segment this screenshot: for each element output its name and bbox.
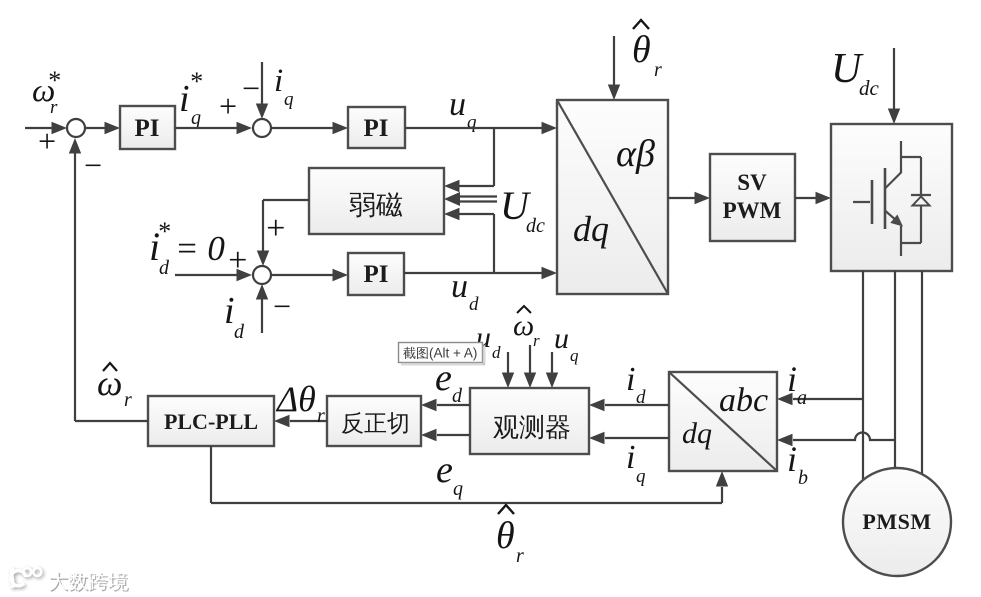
svg-text:θ: θ (632, 29, 651, 71)
watermark dashukuajing logo (11, 568, 129, 592)
wire junction3 to PI3 (271, 269, 348, 281)
summing junction 1 (speed error) (67, 119, 85, 137)
svg-text:dc: dc (859, 76, 880, 100)
block PLC-PLL (148, 396, 274, 446)
wire uq from PI2 to dq-to-alphabeta block (405, 122, 557, 134)
label id measured current (224, 290, 245, 343)
svg-text:d: d (492, 343, 501, 362)
label delta theta_r (275, 379, 325, 427)
wire theta_r estimate into transform top (608, 36, 620, 100)
label id*=0 reference (149, 217, 225, 279)
svg-text:r: r (50, 97, 58, 118)
wire ud from PI3 to dq-to-alphabeta block (404, 267, 557, 279)
svg-text:dq: dq (682, 417, 712, 450)
svg-text:q: q (453, 478, 463, 500)
block PI d-axis current regulator (348, 253, 404, 295)
wire speed reference input (25, 122, 67, 134)
svg-text:PMSM: PMSM (862, 509, 931, 534)
svg-text:q: q (284, 89, 294, 110)
svg-text:d: d (452, 385, 463, 407)
svg-text:i: i (626, 439, 635, 476)
svg-text:i: i (224, 290, 235, 332)
label omega_r estimate (feedback) (97, 363, 132, 411)
wire Udc double line into flux-weakening (444, 192, 497, 206)
svg-text:PWM: PWM (723, 198, 782, 223)
svg-text:a: a (797, 387, 807, 409)
transistor IGBT inside inverter (853, 141, 921, 256)
svg-text:b: b (798, 467, 808, 489)
svg-text:= 0: = 0 (175, 229, 225, 268)
svg-text:r: r (516, 545, 524, 567)
block PI q-axis current regulator (348, 107, 405, 148)
svg-text:θ: θ (496, 515, 515, 557)
wire flux-weakening output to d-current summing junction (257, 200, 309, 266)
svg-text:i: i (274, 63, 283, 99)
wire speed feedback from PLC-PLL to summing junction 1 (69, 138, 148, 421)
label minus sign at speed summing junction (82, 147, 104, 183)
svg-text:−: − (240, 70, 262, 106)
label id to observer (626, 361, 646, 408)
wire transform to SVPWM (668, 192, 710, 204)
svg-text:r: r (317, 405, 325, 427)
svg-text:q: q (467, 112, 477, 133)
svg-text:r: r (124, 389, 132, 411)
wire junction2 to PI2 (271, 122, 348, 134)
svg-text:d: d (636, 387, 646, 408)
block PI speed regulator (120, 106, 175, 149)
svg-text:dq: dq (573, 209, 609, 249)
wire ia current tap to abc-to-dq block (777, 393, 863, 405)
tooltip screenshot hint box (399, 343, 486, 366)
svg-text:+: + (217, 88, 239, 124)
svg-text:*: * (47, 66, 60, 95)
wire ib current tap with hop over phase-a wire (777, 433, 895, 447)
block dq to alphabeta transform (557, 100, 668, 294)
wire id from abc-dq to observer (589, 399, 669, 411)
svg-text:SV: SV (737, 170, 767, 195)
svg-text:i: i (179, 78, 190, 120)
svg-text:PI: PI (135, 115, 160, 142)
wire iq from abc-dq to observer (589, 432, 669, 444)
wire uq branch down into flux-weakening (444, 127, 494, 192)
svg-text:Δθ: Δθ (275, 379, 316, 419)
block inverter (831, 124, 952, 271)
summing junction 2 (q-axis current error) (253, 119, 271, 137)
label theta_r estimate (top) (632, 20, 662, 81)
svg-text:ω: ω (97, 363, 122, 403)
svg-text:ω: ω (513, 309, 534, 342)
label minus sign at q-current summing junction (240, 70, 262, 106)
wire eq from observer to arctan (421, 429, 470, 441)
wire junction1 to PI1 (85, 122, 120, 134)
svg-text:e: e (436, 449, 453, 491)
wire delta theta from arctan to PLC-PLL (274, 415, 327, 427)
label eq back-EMF (436, 449, 463, 500)
svg-text:d: d (234, 321, 245, 343)
motor PMSM (843, 468, 951, 576)
wire theta feedback from PLC-PLL to abc-dq (211, 446, 728, 503)
svg-text:q: q (191, 107, 201, 129)
svg-text:r: r (533, 331, 540, 350)
label ia phase current (787, 359, 807, 409)
svg-text:PI: PI (364, 261, 389, 288)
wire SVPWM to inverter (795, 192, 831, 204)
svg-text:PI: PI (364, 115, 389, 142)
label ib phase current (787, 439, 808, 489)
svg-text:d: d (159, 257, 170, 279)
svg-text:(Alt + A): (Alt + A) (429, 346, 477, 361)
wire uq input into observer top (546, 352, 558, 388)
summing junction 3 (d-axis current error) (253, 266, 271, 284)
svg-text:αβ: αβ (616, 133, 655, 175)
block observer (guanceqi) (470, 388, 589, 454)
block arctangent (fanzhengqie) (327, 396, 421, 446)
svg-text:*: * (189, 67, 202, 96)
wire id* input to summing junction 3 (175, 269, 252, 281)
block abc to dq transform (669, 372, 777, 471)
svg-text:*: * (157, 217, 170, 246)
label omega_r estimate observer input (513, 306, 540, 350)
wire phase b from inverter to motor (894, 271, 896, 468)
label minus sign at d-current summing junction (271, 288, 293, 324)
svg-text:q: q (570, 346, 579, 365)
label plus sign above d-current summing junction (264, 210, 287, 247)
wire ed from observer to arctan (421, 399, 470, 411)
label uq observer input (554, 322, 579, 365)
wire iq feedback into summing junction 2 (256, 62, 268, 119)
wire phase c from inverter to motor (921, 271, 923, 476)
label Udc dc-bus voltage (top right) (831, 46, 880, 100)
wire ud input into observer top (502, 352, 514, 388)
svg-text:i: i (626, 361, 635, 398)
label theta_r estimate (bottom) (496, 505, 524, 567)
wire ud branch up into flux-weakening (444, 208, 494, 273)
svg-text:q: q (636, 466, 646, 487)
label ud voltage (451, 268, 479, 315)
label plus sign at speed summing junction (36, 123, 58, 159)
diode freewheeling inside inverter (901, 157, 931, 243)
svg-text:+: + (264, 210, 287, 247)
svg-text:d: d (469, 294, 479, 315)
svg-text:u: u (449, 86, 466, 123)
label Udc dc-bus voltage (mid) (500, 183, 545, 237)
wire id feedback up into summing junction 3 (256, 284, 268, 333)
wire phase a from inverter to motor (862, 271, 864, 483)
label ed back-EMF (435, 357, 463, 407)
svg-text:−: − (271, 288, 293, 324)
svg-text:dc: dc (526, 215, 545, 237)
block flux-weakening (ruoci) (309, 168, 444, 234)
label ud observer input (476, 321, 501, 362)
wire PI1 to summing junction 2 (175, 122, 252, 134)
svg-text:r: r (654, 59, 662, 81)
label iq* current reference (179, 67, 202, 129)
label plus sign at d-current input (226, 242, 249, 279)
svg-text:i: i (787, 359, 797, 399)
svg-text:PLC-PLL: PLC-PLL (164, 409, 258, 434)
label uq voltage (449, 86, 477, 133)
label iq measured current (274, 63, 294, 110)
wire omega_r estimate into observer top (524, 345, 536, 388)
label omega_r* speed reference (32, 66, 60, 118)
svg-text:−: − (82, 147, 104, 183)
label plus sign at q-current summing junction (217, 88, 239, 124)
svg-text:abc: abc (719, 382, 768, 419)
svg-text:+: + (36, 123, 58, 159)
svg-text:i: i (787, 439, 797, 479)
svg-text:u: u (554, 322, 569, 355)
block SVPWM modulator (710, 154, 795, 241)
wire Udc into inverter top (888, 48, 900, 124)
label iq to observer (626, 439, 646, 487)
